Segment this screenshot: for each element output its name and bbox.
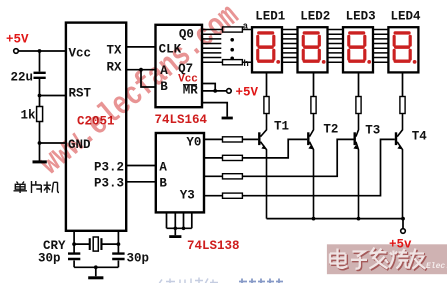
wire bus lines 2-7 stubs (202, 34, 388, 57)
junction rail T4 (401, 217, 405, 221)
wire crystal left pin (73, 231, 75, 267)
transistor T1 (258, 114, 289, 219)
junction crystal right (117, 242, 121, 246)
crystal CRY (43, 237, 118, 253)
svg-text:LED4: LED4 (391, 9, 422, 23)
svg-text:B: B (159, 177, 167, 191)
resistor base R-Y2 (223, 174, 243, 179)
wire segment bus line h (202, 61, 388, 63)
wire Y2 to T3 base (204, 139, 354, 176)
svg-text:+5V: +5V (6, 33, 29, 47)
svg-text:30p: 30p (127, 252, 150, 266)
junction RX node (139, 68, 143, 72)
resistor collector R2 (311, 97, 316, 114)
wire RX to A (126, 69, 155, 71)
wire crystal right pin (117, 231, 119, 267)
svg-text:Vcc: Vcc (69, 47, 92, 61)
svg-text:74LS164: 74LS164 (155, 113, 208, 127)
svg-text:T1: T1 (274, 119, 289, 133)
label 单片机 (14, 181, 60, 193)
ellipsis dots resistors (230, 38, 234, 60)
wire rail to +5v terminal (402, 219, 404, 229)
resistor segment h (223, 60, 243, 65)
junction at GND node (38, 141, 42, 145)
resistor 1k (21, 107, 43, 123)
svg-text:P3.2: P3.2 (94, 161, 124, 175)
capacitor 30p left (38, 252, 80, 266)
wire P3.3 to B (126, 181, 156, 183)
svg-text:P3.3: P3.3 (94, 177, 124, 191)
junction at +5V rail (38, 49, 42, 53)
capacitor 30p right (112, 252, 149, 266)
watermark Elecfans.com small (426, 262, 447, 271)
display LED3 (343, 9, 376, 72)
resistor base R-Y3 (223, 193, 243, 198)
resistor collector R3 (356, 97, 361, 114)
svg-text:+5V: +5V (236, 85, 259, 99)
wire +5V to Vcc pin of C2051 (18, 50, 66, 52)
svg-text:Y3: Y3 (180, 189, 195, 203)
svg-text:Y0: Y0 (186, 136, 201, 150)
wire LED4 cathode to R (402, 72, 404, 96)
wire LED1 cathode to R (266, 72, 268, 96)
junction rail T2 (312, 217, 316, 221)
svg-text:22u: 22u (11, 71, 34, 85)
wire GND of 74LS164 (202, 103, 227, 117)
junction MR/Vcc (213, 89, 217, 93)
svg-text:MR: MR (183, 84, 199, 98)
shift register 74LS164 U2 (156, 25, 203, 107)
wire GND (40, 142, 66, 144)
junction crystal bottom (94, 265, 98, 269)
wire Vcc of 74LS164 to +5V (202, 84, 215, 91)
svg-text:RST: RST (69, 87, 92, 101)
wire Y0 to T1 base (204, 138, 258, 140)
svg-text:A: A (159, 161, 167, 175)
wire RX branch to B (141, 70, 156, 87)
capacitor 22u (11, 71, 46, 85)
svg-text:RX: RX (107, 60, 123, 74)
resistor segment a (223, 27, 243, 32)
display LED1 (252, 9, 285, 72)
wire MR to +5V terminal (202, 90, 227, 92)
wire LED2 cathode to R (313, 72, 315, 96)
watermark 电子发烧友 strokes (red shadow layer) (331, 249, 427, 270)
svg-text:30p: 30p (38, 252, 61, 266)
wire Y3 to T4 base (204, 139, 395, 195)
74LS138 ground pins (167, 212, 192, 235)
resistor base R-Y0 (223, 137, 243, 142)
svg-text:LED2: LED2 (300, 9, 330, 23)
svg-text:TX: TX (107, 43, 123, 57)
svg-text:LED1: LED1 (255, 9, 285, 23)
wire RST (40, 95, 66, 97)
node +5v terminal bottom (401, 229, 406, 234)
wire vertical left rail (through 22u, 1k) (39, 51, 41, 161)
transistor T3 (353, 114, 380, 219)
wire emitter rail (267, 218, 404, 220)
wire crystal bottom (74, 267, 118, 276)
svg-text:h: h (243, 59, 248, 69)
transistor T2 (307, 114, 338, 219)
svg-text:+5v: +5v (389, 238, 412, 252)
wire P3.2 to A (126, 165, 156, 167)
junction crystal left (72, 242, 76, 246)
ground left (33, 160, 47, 163)
ground 74LS164 (222, 117, 233, 120)
svg-text:T2: T2 (323, 123, 338, 137)
wire LED3 cathode to R (358, 72, 360, 96)
ground crystal (88, 276, 103, 279)
resistor collector R1 (264, 97, 269, 114)
resistor base R-Y1 (223, 155, 243, 160)
junction rail T3 (357, 217, 361, 221)
display LED2 (298, 9, 331, 72)
svg-text:Elec.an: Elec.an (426, 262, 447, 271)
decoder 74LS138 U3 (156, 133, 204, 212)
node +5V top-left terminal (6, 33, 29, 54)
wire TX to CLK (126, 46, 155, 48)
svg-text:74LS138: 74LS138 (187, 239, 240, 253)
watermark block 电子发烧友 bottom right (327, 244, 447, 274)
svg-text:T3: T3 (365, 123, 380, 137)
wire segment bus Q0 (line a) (202, 29, 388, 31)
ground 74LS138 (169, 235, 181, 238)
caption bottom blue (clipped) (159, 278, 218, 283)
svg-text:LED3: LED3 (346, 9, 376, 23)
transistor T4 (395, 114, 427, 219)
svg-text:T4: T4 (412, 130, 428, 144)
display LED4 (388, 9, 421, 72)
watermark 电子发烧友 strokes (light layer) (330, 248, 426, 269)
wire Y1 to T2 base (204, 139, 307, 158)
junction at RST node (38, 94, 42, 98)
resistor collector R4 (400, 97, 405, 114)
node +5V terminal (74LS164) (227, 89, 232, 94)
svg-text:1k: 1k (21, 108, 37, 122)
MCU C2051 U1 (66, 23, 126, 231)
